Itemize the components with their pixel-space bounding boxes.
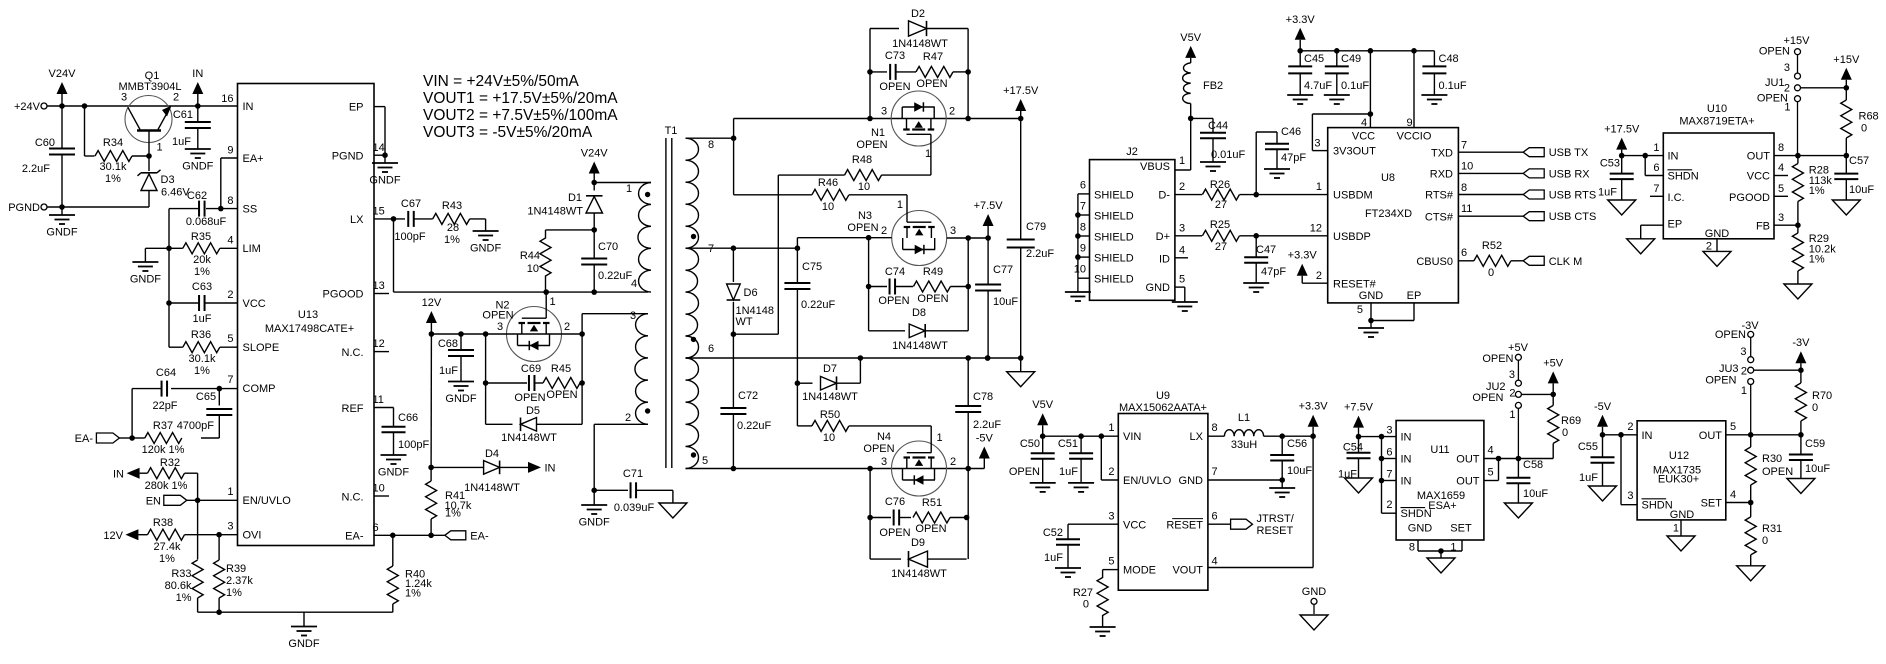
svg-text:1: 1 bbox=[897, 199, 903, 211]
svg-text:3: 3 bbox=[1784, 62, 1790, 74]
svg-text:EA-: EA- bbox=[345, 531, 364, 543]
svg-text:R47: R47 bbox=[923, 51, 943, 63]
svg-text:EP: EP bbox=[1407, 290, 1422, 302]
svg-text:IN: IN bbox=[243, 101, 254, 113]
capacitor C46 bbox=[1256, 126, 1306, 195]
svg-text:+7.5V: +7.5V bbox=[1344, 402, 1374, 414]
wire snubber left rail bbox=[485, 334, 487, 424]
wire N4 snub left rail bbox=[869, 469, 871, 560]
svg-text:C46: C46 bbox=[1281, 126, 1301, 138]
junction dot bbox=[1600, 432, 1606, 438]
svg-text:JU3: JU3 bbox=[1719, 363, 1739, 375]
svg-text:U8: U8 bbox=[1381, 172, 1395, 184]
junction dot bbox=[1379, 434, 1385, 440]
resistor R26 bbox=[1202, 179, 1239, 211]
IC J2 box bbox=[1090, 146, 1175, 300]
svg-text:0.22uF: 0.22uF bbox=[801, 299, 836, 311]
svg-text:LX: LX bbox=[350, 214, 364, 226]
svg-text:VOUT2 = +7.5V±5%/100mA: VOUT2 = +7.5V±5%/100mA bbox=[423, 107, 618, 124]
svg-text:U9: U9 bbox=[1156, 390, 1170, 402]
svg-text:R45: R45 bbox=[551, 363, 571, 375]
wire N4 snub right rail bbox=[967, 469, 969, 560]
wire R34 branch bbox=[85, 106, 95, 156]
svg-text:IN: IN bbox=[545, 463, 556, 475]
svg-text:OPEN: OPEN bbox=[546, 389, 577, 401]
svg-text:WT: WT bbox=[736, 316, 753, 328]
svg-text:OUT: OUT bbox=[1699, 430, 1723, 442]
resistor R38 bbox=[148, 517, 185, 565]
junction dot bbox=[1379, 478, 1385, 484]
junction dot bbox=[1334, 48, 1340, 54]
svg-text:OUT: OUT bbox=[1747, 151, 1771, 163]
wire pin7 lead bbox=[686, 247, 798, 249]
svg-text:VOUT: VOUT bbox=[1172, 565, 1203, 577]
svg-text:4: 4 bbox=[1488, 445, 1494, 457]
svg-text:OPEN: OPEN bbox=[917, 293, 948, 305]
svg-text:0: 0 bbox=[1083, 599, 1089, 611]
capacitor C76 bbox=[870, 496, 911, 539]
junction dot bbox=[1748, 500, 1754, 506]
svg-text:VOUT1 = +17.5V±5%/20mA: VOUT1 = +17.5V±5%/20mA bbox=[423, 90, 618, 107]
svg-text:C62: C62 bbox=[187, 190, 207, 202]
svg-text:PGOOD: PGOOD bbox=[323, 289, 364, 301]
svg-text:USB TX: USB TX bbox=[1549, 147, 1589, 159]
wire R35 leads bbox=[169, 247, 238, 249]
pin 16 IN bbox=[221, 93, 253, 113]
svg-text:IN: IN bbox=[113, 469, 124, 481]
svg-text:R27: R27 bbox=[1073, 587, 1093, 599]
svg-text:3: 3 bbox=[121, 92, 127, 104]
pin 5 PGOOD stub bbox=[1774, 195, 1788, 197]
junction dot bbox=[1368, 318, 1374, 324]
junction dot bbox=[1040, 433, 1046, 439]
capacitor C62 bbox=[169, 190, 226, 228]
U11 pin names bbox=[1386, 425, 1493, 554]
junction dot bbox=[731, 135, 737, 141]
svg-text:R25: R25 bbox=[1210, 219, 1230, 231]
power flag V5V bbox=[1032, 399, 1053, 436]
svg-text:1: 1 bbox=[157, 142, 163, 154]
ground GNDF bbox=[1269, 480, 1295, 497]
svg-text:7: 7 bbox=[1386, 469, 1392, 481]
wire to GNDF bbox=[145, 248, 169, 262]
ground GNDF bottom bbox=[288, 612, 319, 650]
svg-text:OPEN: OPEN bbox=[847, 222, 878, 234]
junction dot bbox=[1550, 392, 1556, 398]
junction dot bbox=[1798, 432, 1804, 438]
svg-text:10: 10 bbox=[1074, 264, 1086, 276]
capacitor C65 bbox=[177, 389, 233, 438]
power flag +15V bbox=[1833, 54, 1860, 88]
svg-text:C76: C76 bbox=[885, 496, 905, 508]
svg-text:C48: C48 bbox=[1439, 53, 1459, 65]
U8 pin names bbox=[1310, 117, 1474, 316]
wire GND pin bbox=[1680, 520, 1682, 536]
ground GNDF bbox=[1065, 278, 1091, 301]
svg-text:7: 7 bbox=[1080, 201, 1086, 213]
svg-text:+5V: +5V bbox=[1508, 342, 1529, 354]
svg-text:USB RTS: USB RTS bbox=[1549, 190, 1596, 202]
svg-text:IN: IN bbox=[1401, 476, 1412, 488]
T1 winding 3-2 bbox=[625, 310, 650, 424]
svg-text:47pF: 47pF bbox=[1281, 152, 1306, 164]
svg-text:2: 2 bbox=[1627, 421, 1633, 433]
svg-text:12V: 12V bbox=[422, 297, 442, 309]
svg-text:27.4k: 27.4k bbox=[154, 541, 181, 553]
pin 10 N.C. stub bbox=[342, 483, 390, 504]
pin 7 COMP bbox=[227, 374, 275, 395]
svg-text:2: 2 bbox=[1179, 181, 1185, 193]
svg-text:16: 16 bbox=[221, 93, 233, 105]
svg-text:D6: D6 bbox=[744, 287, 758, 299]
svg-text:4: 4 bbox=[227, 235, 233, 247]
svg-text:5: 5 bbox=[1778, 183, 1784, 195]
resistor R36 bbox=[183, 329, 220, 377]
ground GNDF bbox=[1287, 95, 1313, 104]
svg-text:6: 6 bbox=[708, 343, 714, 355]
wire R36 leads bbox=[169, 346, 238, 348]
ground GND triangle bbox=[1737, 566, 1765, 581]
svg-text:R38: R38 bbox=[153, 517, 173, 529]
svg-text:PGOOD: PGOOD bbox=[1729, 192, 1770, 204]
svg-text:3: 3 bbox=[881, 456, 887, 468]
pin 2 D- bbox=[1158, 181, 1185, 202]
svg-text:MAX15062AATA+: MAX15062AATA+ bbox=[1119, 402, 1207, 414]
wire LX bbox=[1208, 435, 1225, 437]
wire pin8 lead bbox=[686, 137, 734, 139]
svg-text:5: 5 bbox=[1108, 556, 1114, 568]
resistor R39 bbox=[214, 535, 254, 599]
svg-text:3: 3 bbox=[1179, 223, 1185, 235]
inductor FB2 bbox=[1183, 63, 1224, 119]
svg-text:15: 15 bbox=[373, 206, 385, 218]
svg-text:SHIELD: SHIELD bbox=[1094, 274, 1134, 286]
svg-text:JU1: JU1 bbox=[1765, 77, 1785, 89]
svg-text:V5V: V5V bbox=[1180, 32, 1201, 44]
svg-text:+3.3V: +3.3V bbox=[1288, 250, 1318, 262]
svg-text:N3: N3 bbox=[858, 210, 872, 222]
power flag V24V bbox=[49, 68, 77, 106]
svg-text:1%: 1% bbox=[194, 365, 210, 377]
junction dot bbox=[731, 245, 737, 251]
svg-text:7: 7 bbox=[227, 374, 233, 386]
wire EN bus down bbox=[197, 500, 199, 559]
resistor R37 bbox=[142, 420, 185, 456]
junction dot bbox=[591, 488, 597, 494]
pin 11 REF bbox=[342, 394, 394, 415]
svg-text:OPEN: OPEN bbox=[1762, 466, 1793, 478]
svg-text:D2: D2 bbox=[911, 8, 925, 20]
wire OUT row bbox=[1726, 434, 1801, 436]
IC U12 MAX1735 box bbox=[1637, 421, 1726, 520]
diode D6 bbox=[727, 248, 774, 334]
svg-text:R44: R44 bbox=[520, 250, 540, 262]
svg-text:2: 2 bbox=[625, 412, 631, 424]
svg-text:USBDP: USBDP bbox=[1333, 231, 1371, 243]
ground GNDF bbox=[1358, 321, 1384, 338]
wire N2 to transformer pin3 bbox=[582, 314, 648, 334]
capacitor C64 bbox=[132, 367, 178, 412]
svg-text:8: 8 bbox=[1080, 222, 1086, 234]
junction dot bbox=[1310, 433, 1316, 439]
svg-text:3: 3 bbox=[497, 321, 503, 333]
svg-text:4: 4 bbox=[1212, 556, 1218, 568]
wire R33 bottom bbox=[197, 598, 199, 612]
svg-text:SHIELD: SHIELD bbox=[1094, 211, 1134, 223]
capacitor C45 bbox=[1288, 51, 1332, 95]
pin 14 PGND bbox=[332, 142, 385, 163]
svg-text:C51: C51 bbox=[1058, 438, 1078, 450]
junction dot bbox=[867, 466, 873, 472]
svg-text:9: 9 bbox=[227, 145, 233, 157]
svg-text:3: 3 bbox=[1740, 346, 1746, 358]
wire R34 to Q1 base bbox=[132, 155, 149, 157]
svg-text:C79: C79 bbox=[1026, 221, 1046, 233]
wire R44 bottom bbox=[545, 276, 548, 293]
wire pin6 lead bbox=[686, 357, 1021, 359]
svg-text:100pF: 100pF bbox=[394, 231, 425, 243]
svg-text:1: 1 bbox=[1673, 523, 1679, 535]
resistor R50 bbox=[797, 409, 931, 444]
capacitor C53 bbox=[1598, 156, 1634, 200]
svg-text:N.C.: N.C. bbox=[342, 492, 364, 504]
junction dot bbox=[82, 103, 88, 109]
IC U10 MAX8719ETA+ box bbox=[1663, 103, 1774, 239]
svg-text:MAX8719ETA+: MAX8719ETA+ bbox=[1679, 116, 1754, 128]
capacitor C69 bbox=[514, 363, 545, 404]
junction dot bbox=[1253, 192, 1259, 198]
wire +24V rail to U13 IN bbox=[47, 105, 238, 107]
junction dot bbox=[1099, 433, 1105, 439]
wire FB bbox=[1774, 224, 1798, 226]
svg-text:-3V: -3V bbox=[1741, 320, 1759, 332]
capacitor C54 bbox=[1338, 437, 1370, 481]
usb tag CTS bbox=[1458, 211, 1596, 223]
ground GNDF bbox=[1324, 95, 1350, 104]
IC U11 MAX1659 box bbox=[1396, 421, 1484, 541]
J2 shield pins bbox=[1074, 180, 1134, 286]
power flag 12V bbox=[422, 297, 442, 334]
svg-text:C78: C78 bbox=[973, 391, 993, 403]
svg-text:1N4148WT: 1N4148WT bbox=[892, 38, 948, 50]
power flag +17.5V bbox=[1003, 85, 1039, 119]
svg-text:OPEN: OPEN bbox=[1759, 46, 1790, 58]
wire C65 to R37 bbox=[201, 437, 219, 439]
svg-text:VIN: VIN bbox=[1123, 431, 1141, 443]
svg-text:1%: 1% bbox=[226, 587, 242, 599]
junction dot bbox=[1379, 456, 1385, 462]
svg-text:GNDF: GNDF bbox=[470, 243, 501, 255]
wire +17.5V rail down bbox=[1020, 119, 1022, 359]
svg-text:6: 6 bbox=[1653, 162, 1659, 174]
svg-text:RESET#: RESET# bbox=[1333, 279, 1377, 291]
junction dot bbox=[1795, 222, 1801, 228]
ground GND triangle bbox=[1345, 478, 1373, 493]
svg-text:J2: J2 bbox=[1126, 146, 1138, 158]
svg-text:OPEN: OPEN bbox=[856, 139, 887, 151]
junction dot bbox=[216, 532, 222, 538]
svg-text:RTS#: RTS# bbox=[1425, 190, 1454, 202]
svg-text:6: 6 bbox=[1461, 247, 1467, 259]
transformer T1 core bbox=[665, 125, 678, 468]
svg-text:6: 6 bbox=[1386, 447, 1392, 459]
svg-text:3: 3 bbox=[630, 310, 636, 322]
svg-text:-5V: -5V bbox=[1594, 401, 1612, 413]
svg-text:5: 5 bbox=[1357, 304, 1363, 316]
resistor R33 bbox=[165, 560, 204, 604]
wire left bus bbox=[168, 209, 170, 348]
svg-text:10: 10 bbox=[823, 432, 835, 444]
svg-text:10: 10 bbox=[1461, 161, 1473, 173]
svg-text:+3.3V: +3.3V bbox=[1299, 401, 1329, 413]
ground GND triangle bbox=[659, 490, 687, 518]
svg-text:VCC: VCC bbox=[1747, 171, 1770, 183]
junction dot bbox=[1018, 355, 1024, 361]
svg-text:2: 2 bbox=[949, 106, 955, 118]
svg-text:C66: C66 bbox=[398, 412, 418, 424]
resistor R46 bbox=[734, 177, 907, 213]
wire D7 right to pin6 bbox=[859, 358, 861, 383]
wire R46 to N3 gate bbox=[897, 195, 907, 211]
junction dot bbox=[1411, 48, 1417, 54]
svg-text:4: 4 bbox=[1778, 162, 1784, 174]
wire R43 to gnd bbox=[470, 219, 486, 231]
svg-text:C47: C47 bbox=[1256, 244, 1276, 256]
svg-text:1%: 1% bbox=[105, 173, 121, 185]
ground GNDF bbox=[378, 455, 409, 479]
svg-text:VCC: VCC bbox=[243, 298, 266, 310]
capacitor C47 bbox=[1244, 236, 1286, 283]
ground GND triangle bbox=[1627, 239, 1655, 254]
svg-text:8: 8 bbox=[1409, 542, 1415, 554]
capacitor C79 bbox=[1007, 221, 1055, 260]
junction dot C61 tap bbox=[195, 103, 201, 109]
wire pin5 lead bbox=[686, 468, 985, 470]
svg-text:EP: EP bbox=[349, 102, 364, 114]
pin 2 VCC bbox=[227, 289, 265, 310]
svg-text:33uH: 33uH bbox=[1231, 439, 1257, 451]
ground GNDF bbox=[369, 155, 400, 186]
svg-text:OPEN: OPEN bbox=[1757, 93, 1788, 105]
junction dot bbox=[579, 380, 585, 386]
svg-text:1: 1 bbox=[1108, 422, 1114, 434]
svg-text:2.2uF: 2.2uF bbox=[22, 163, 50, 175]
tag EA- bbox=[75, 433, 132, 445]
svg-text:3V3OUT: 3V3OUT bbox=[1333, 146, 1376, 158]
U9 pin names bbox=[1108, 422, 1217, 577]
wire EP gnd bbox=[1641, 225, 1664, 239]
pin 1 EN/UVLO bbox=[227, 486, 291, 507]
svg-text:D7: D7 bbox=[823, 363, 837, 375]
svg-text:4: 4 bbox=[1179, 245, 1185, 257]
svg-text:+15V: +15V bbox=[1833, 54, 1860, 66]
svg-text:OPEN: OPEN bbox=[514, 392, 545, 404]
wire SHDN bbox=[1645, 156, 1663, 176]
svg-text:R39: R39 bbox=[226, 563, 246, 575]
jumper JU1 bbox=[1757, 35, 1810, 156]
svg-text:PGND: PGND bbox=[332, 151, 364, 163]
junction dot bbox=[867, 69, 873, 75]
ground GND triangle bbox=[1703, 251, 1731, 266]
svg-text:R32: R32 bbox=[160, 457, 180, 469]
diode D4 bbox=[431, 448, 528, 494]
junction dot bbox=[1496, 456, 1502, 462]
svg-text:+7.5V: +7.5V bbox=[974, 200, 1004, 212]
wire SET bbox=[1726, 502, 1751, 504]
svg-text:OPEN: OPEN bbox=[878, 295, 909, 307]
wire R49 right bbox=[950, 286, 968, 288]
wire COMP bbox=[171, 388, 238, 390]
junction dot bbox=[858, 355, 864, 361]
capacitor C67 bbox=[394, 198, 425, 243]
svg-text:USBDM: USBDM bbox=[1333, 190, 1373, 202]
T1 winding 6-5 bbox=[686, 343, 715, 469]
svg-text:TXD: TXD bbox=[1431, 147, 1453, 159]
svg-text:D4: D4 bbox=[485, 448, 499, 460]
resistor R44 bbox=[520, 238, 551, 276]
diode D5 bbox=[486, 405, 582, 444]
wire N2 gate bbox=[546, 292, 555, 308]
resistor R43 bbox=[414, 200, 470, 246]
svg-text:1: 1 bbox=[1179, 155, 1185, 167]
svg-text:0.1uF: 0.1uF bbox=[1439, 80, 1467, 92]
capacitor C49 bbox=[1325, 51, 1370, 95]
svg-text:EUK30+: EUK30+ bbox=[1658, 474, 1699, 486]
ground GND triangle bbox=[1832, 200, 1860, 215]
usb tag TXD bbox=[1458, 147, 1588, 159]
wire EN/UVLO bbox=[1101, 436, 1118, 480]
wire R32 to EN node bbox=[185, 473, 198, 500]
junction dot on pin6 row C77 bbox=[985, 355, 991, 361]
wire N3 snub left rail bbox=[868, 238, 870, 331]
svg-text:CTS#: CTS# bbox=[1425, 211, 1454, 223]
svg-text:10: 10 bbox=[373, 483, 385, 495]
junction dot bbox=[218, 206, 224, 212]
jumper JU2 bbox=[1472, 342, 1528, 459]
svg-text:C45: C45 bbox=[1304, 53, 1324, 65]
ground GND triangle bbox=[1608, 200, 1636, 215]
wire D- bbox=[1175, 194, 1202, 196]
junction dot bbox=[985, 355, 991, 361]
resistor R35 bbox=[183, 231, 220, 278]
svg-text:9: 9 bbox=[1080, 243, 1086, 255]
pin 5 SLOPE bbox=[227, 333, 279, 354]
svg-text:5: 5 bbox=[227, 333, 233, 345]
svg-text:4: 4 bbox=[1730, 489, 1736, 501]
pin 13 PGOOD stub bbox=[323, 280, 389, 301]
svg-text:GND: GND bbox=[1408, 523, 1433, 535]
svg-text:+5V: +5V bbox=[1543, 357, 1564, 369]
pin 8 SS bbox=[227, 195, 257, 216]
power flag V5V bbox=[1180, 32, 1201, 63]
svg-text:IN: IN bbox=[1668, 151, 1679, 163]
wire JU2 pin2 to +5V bbox=[1521, 393, 1553, 395]
svg-text:GND: GND bbox=[1302, 586, 1327, 598]
svg-text:R37: R37 bbox=[153, 420, 173, 432]
svg-text:R48: R48 bbox=[852, 154, 872, 166]
capacitor C56 bbox=[1270, 436, 1312, 480]
svg-text:EA-: EA- bbox=[470, 530, 489, 542]
svg-text:R50: R50 bbox=[820, 409, 840, 421]
labels N2 bbox=[482, 300, 570, 334]
resistor R51 bbox=[913, 497, 950, 535]
svg-text:3: 3 bbox=[1314, 138, 1320, 150]
wire R47 right bbox=[953, 71, 968, 73]
IC U8 FT234XD box bbox=[1328, 128, 1459, 303]
svg-text:C77: C77 bbox=[993, 264, 1013, 276]
wire bottom gnd rail bbox=[198, 598, 393, 612]
ground GND triangle bbox=[1784, 284, 1812, 299]
